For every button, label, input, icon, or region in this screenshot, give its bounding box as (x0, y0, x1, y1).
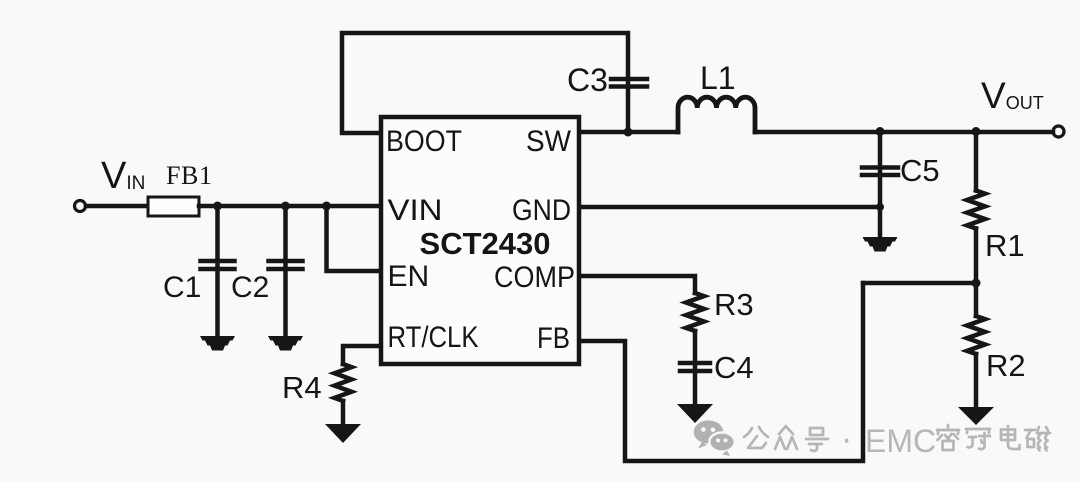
svg-text:C3: C3 (567, 62, 608, 98)
ground (cone) C5 (863, 237, 898, 252)
svg-text:GND: GND (512, 194, 571, 227)
wire L1 to VOUT (755, 130, 1053, 135)
wire R2 to ground (974, 354, 979, 407)
node dot R1 tap (972, 127, 981, 136)
wire RT/CLK pin (343, 346, 381, 364)
wire R2 top (974, 283, 979, 316)
watermark char 冠 (966, 429, 990, 449)
resistor R2 (967, 316, 985, 354)
wire FB pin routing (579, 283, 863, 461)
capacitor C1 (201, 261, 235, 269)
wire input to FB1 (86, 204, 148, 209)
wire R3 to C4 to ground (693, 331, 698, 404)
svg-text:R3: R3 (714, 287, 754, 322)
watermark char 众 (775, 426, 797, 449)
svg-text:VIN: VIN (388, 194, 443, 227)
svg-text:C4: C4 (714, 350, 754, 385)
svg-text:·: · (841, 420, 852, 458)
node dot EN tap (322, 202, 331, 211)
svg-text:EMC: EMC (865, 423, 936, 459)
svg-text:R4: R4 (282, 370, 322, 405)
wire GND pin (579, 205, 880, 210)
wire C1 branch (215, 206, 220, 336)
svg-text:C5: C5 (900, 153, 940, 188)
watermark char 号 (806, 428, 828, 451)
watermark char 电 (1001, 426, 1020, 449)
ground (triangle) R2 (958, 407, 994, 425)
svg-text:FB1: FB1 (166, 161, 213, 190)
wire R1 bottom (974, 229, 979, 284)
ferrite bead FB1 (148, 197, 199, 216)
svg-text:L1: L1 (700, 60, 736, 96)
watermark char 公 (744, 427, 768, 448)
svg-text:C2: C2 (231, 271, 269, 304)
node dot C5/GND junction (876, 203, 884, 211)
resistor R3 (686, 293, 704, 331)
wire C5 branch (878, 132, 883, 237)
ground (cone) C1 (200, 336, 235, 351)
svg-text:SW: SW (526, 125, 572, 158)
capacitor C5 (862, 168, 898, 176)
input terminal VIN (75, 201, 86, 212)
capacitor C3 (611, 79, 647, 87)
svg-text:BOOT: BOOT (386, 125, 462, 158)
svg-text:FB: FB (537, 322, 570, 355)
resistor R1 (967, 191, 985, 229)
svg-text:EN: EN (388, 260, 430, 293)
watermark wechat icon (694, 420, 735, 456)
wire R1 top (974, 132, 979, 191)
wire COMP pin (579, 276, 695, 293)
wire BOOT loop (342, 33, 628, 133)
wire C2 branch (283, 206, 288, 336)
node dot SW/C3 junction (624, 128, 633, 137)
inductor L1 (678, 97, 755, 132)
output terminal VOUT (1053, 126, 1064, 137)
svg-text:RT/CLK: RT/CLK (388, 321, 479, 354)
ground (cone) C2 (268, 336, 303, 351)
capacitor C4 (680, 363, 710, 371)
wire SW to L1 (579, 130, 678, 135)
svg-text:R1: R1 (985, 228, 1025, 263)
wire FB1 to VIN pin (199, 204, 379, 209)
wire FB junction to R1/R2 node (863, 281, 976, 286)
node dot R1/R2 junction (972, 279, 981, 288)
IC U1 SCT2430 body (381, 117, 579, 364)
watermark char 磁 (1025, 427, 1050, 451)
wire EN branch (327, 206, 380, 271)
svg-text:SCT2430: SCT2430 (420, 226, 551, 261)
svg-text:R2: R2 (986, 348, 1026, 383)
watermark char 容 (937, 425, 959, 450)
node dot C1 tap (213, 202, 222, 211)
resistor R4 (335, 364, 352, 401)
node dot C2 tap (281, 202, 290, 211)
wire R4 to ground (341, 401, 346, 424)
node dot C5 tap (876, 127, 885, 136)
ground (triangle) C4 (677, 404, 713, 423)
capacitor C2 (269, 261, 303, 269)
svg-text:COMP: COMP (494, 261, 575, 294)
svg-text:C1: C1 (163, 271, 201, 304)
ground (triangle) R4 (325, 424, 361, 443)
